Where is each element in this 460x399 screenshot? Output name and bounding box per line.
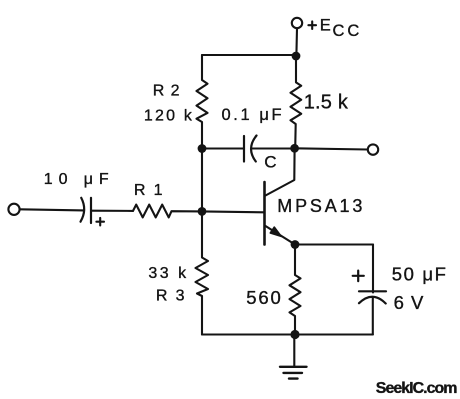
svg-text:CC: CC [333, 22, 363, 40]
wire 10uF to resistor R1 [91, 210, 133, 212]
svg-text:1.5 k: 1.5 k [304, 91, 349, 113]
wire 50uF to bottom rail [372, 298, 374, 335]
node junction left mid [198, 144, 207, 153]
svg-text:R3: R3 [156, 288, 193, 305]
resistor R3 [196, 211, 209, 334]
capacitor 50uF bottom plate (curved) [359, 297, 386, 304]
transistor Q1 emitter lead [266, 226, 296, 245]
svg-text:SeekIC.com: SeekIC.com [376, 380, 457, 397]
wire to output terminal [295, 148, 368, 149]
node junction base [198, 207, 207, 216]
wire 50uF branch down [372, 245, 374, 293]
svg-text:R2: R2 [153, 83, 186, 100]
node junction emitter [291, 240, 300, 249]
label + of 10uF [96, 218, 104, 226]
label +Ecc [308, 17, 362, 40]
svg-text:120 k: 120 k [144, 108, 194, 125]
node junction ground [290, 330, 299, 339]
svg-text:560: 560 [246, 287, 282, 308]
terminal +Ecc top [292, 18, 302, 28]
wire capacitor C to collector node [253, 147, 296, 149]
capacitor 10uF straight plate [90, 198, 92, 223]
terminal input [8, 204, 19, 215]
transistor Q1 collector lead [266, 148, 295, 195]
svg-text:33 k: 33 k [148, 265, 188, 282]
capacitor C 0.1uF left plate [243, 136, 245, 162]
svg-text:C: C [264, 153, 276, 172]
wire top terminal to rail [295, 28, 298, 55]
svg-text:0.1 μF: 0.1 μF [222, 106, 285, 124]
wire left node vertical (R2 node to base node) [201, 149, 203, 212]
svg-text:10 μF: 10 μF [44, 171, 115, 188]
svg-text:50 μF: 50 μF [392, 263, 448, 284]
node junction collector/output [290, 144, 299, 153]
svg-text:E: E [320, 17, 331, 35]
svg-text:6 V: 6 V [394, 292, 425, 313]
resistor 560 [290, 245, 301, 335]
capacitor 10uF curved plate [81, 198, 85, 222]
transistor Q1 emitter arrow [270, 227, 281, 236]
capacitor 50uF top plate [359, 290, 386, 292]
wire base to transistor [202, 210, 264, 213]
wire node to capacitor C [202, 147, 244, 149]
resistor 1.5k [291, 56, 302, 149]
node junction top rail [292, 52, 301, 61]
capacitor C 0.1uF right plate (curved) [251, 136, 256, 162]
transistor Q1 MPSA13 base bar [263, 182, 266, 245]
wire top rail [202, 54, 296, 56]
resistor R2 [197, 55, 208, 149]
terminal output [368, 144, 378, 154]
ground [280, 335, 307, 379]
wire input to capacitor 10uF [20, 209, 84, 210]
wire bottom rail [202, 333, 373, 335]
svg-text:MPSA13: MPSA13 [277, 196, 365, 216]
label + of 50uF [353, 271, 364, 282]
wire emitter to 50uF branch [295, 243, 373, 245]
resistor R1 [133, 205, 202, 218]
svg-text:R1: R1 [134, 182, 171, 199]
